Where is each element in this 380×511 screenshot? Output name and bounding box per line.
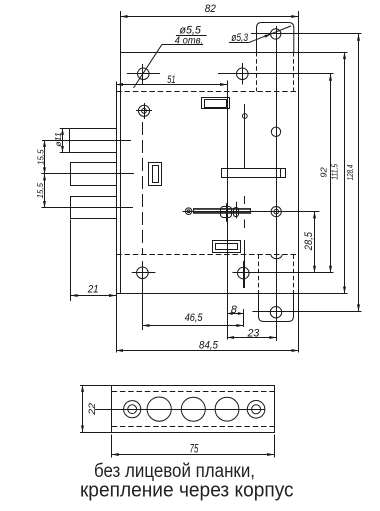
dimension 84.5 line [116, 350, 299, 352]
spindle left pivot dot [187, 210, 190, 213]
screw boss upper-left cross lines [136, 110, 152, 112]
dimension 21 extension line [70, 220, 72, 302]
label dia5.3 leader with arrow [249, 26, 291, 43]
svg-text:21: 21 [87, 284, 99, 296]
lock body right edge with dim extensions [298, 11, 300, 353]
svg-text:51: 51 [167, 74, 175, 86]
dimension 8 line [227, 313, 243, 315]
dimension 22 line [82, 385, 84, 432]
lower right hole vertical line [243, 261, 245, 288]
spindle shaft upper double line [194, 208, 251, 210]
spindle left pivot ring [185, 208, 192, 215]
svg-text:128,4: 128,4 [345, 164, 355, 180]
top tab hole horizontal center line [251, 33, 362, 35]
svg-text:22: 22 [87, 402, 98, 416]
spindle shaft right end cap [250, 208, 252, 214]
svg-text:8: 8 [231, 304, 238, 316]
dimension 75 extension right [274, 435, 276, 458]
deadbolt pin 3 bottom edge [70, 218, 116, 220]
deadbolt pin 1 center line [42, 140, 131, 142]
deadbolt pin 2 top edge [70, 162, 116, 164]
hidden line lower mechanism [116, 254, 298, 256]
upper holes center line left segment [127, 73, 160, 75]
face view right screw hole outer [247, 401, 265, 419]
svg-text:15,5: 15,5 [36, 183, 45, 199]
dimension 23 line [227, 337, 276, 339]
face view big hole 1 [147, 397, 171, 421]
face view big hole 2 [181, 397, 205, 421]
upper right hole vertical center line [242, 63, 244, 85]
cam lobe large tick [226, 203, 228, 222]
top slot inner [205, 100, 227, 108]
lower holes center line right segment to dims [232, 272, 333, 274]
svg-text:75: 75 [190, 444, 199, 456]
dimension 128.4 line [358, 34, 360, 312]
svg-text:84,5: 84,5 [199, 340, 219, 352]
deadbolt pin 2 bottom edge [70, 185, 116, 187]
face view plate outline [112, 386, 275, 433]
dimension 22 extension bottom [80, 432, 112, 434]
dimension dia11 extension top [60, 128, 70, 130]
lock body top edge [121, 52, 348, 54]
face view hidden line bottom [112, 426, 275, 428]
stop bar plate [222, 169, 286, 178]
deadbolt pin 1 bottom edge [70, 152, 116, 154]
dimension 22 extension top [80, 385, 112, 387]
dimension 92 line [330, 74, 332, 273]
top mounting tab outline [257, 23, 294, 53]
hidden line upper mechanism [116, 91, 298, 93]
bottom tab hole horizontal center line [252, 311, 361, 313]
spindle horizontal axis [183, 211, 320, 213]
label 4otv underline2 [162, 44, 204, 46]
dimension dia11 line [62, 129, 64, 152]
face view horizontal center line [95, 409, 266, 411]
face view big hole 3 [215, 397, 239, 421]
svg-text:15,5: 15,5 [36, 149, 45, 165]
hidden notch arc under lower hidden line [271, 255, 282, 259]
face view hidden line top [112, 391, 275, 393]
upper-right mounting hole dia5.5 [237, 68, 249, 80]
face view right screw hole inner [252, 405, 261, 414]
upper-left mounting hole dia5.5 [138, 68, 150, 80]
dimension 21 line [71, 295, 116, 297]
dimension 51 line [116, 84, 227, 86]
dimension 8 extension [243, 309, 245, 327]
lower holes center line left segment [132, 272, 156, 274]
face view left screw hole outer [124, 401, 141, 418]
top tab hidden left edge [256, 52, 258, 91]
label dia5.5 underline1 [176, 35, 207, 37]
left slot outer [149, 163, 162, 186]
dimension 82 line with arrows [121, 16, 299, 18]
left slot inner [153, 166, 159, 183]
dimension 28.5 line [314, 211, 316, 272]
bottom slot inner [216, 244, 238, 250]
lock body left edge with dim-82 extension [120, 11, 122, 294]
dimension 75 extension left [111, 435, 113, 458]
bottom tab hole dia 5.3 [270, 307, 281, 318]
deadbolt pin 3 left edge [70, 197, 72, 219]
deadbolt pin 3 center line [42, 207, 134, 209]
bottom slot outer [213, 241, 241, 253]
svg-text:28,5: 28,5 [303, 231, 315, 251]
lower-right mounting hole dia5.5 [238, 267, 250, 279]
top tab hole dia 5.3 [271, 29, 281, 39]
tab holes vertical center line [276, 26, 278, 341]
stop bar divider [280, 168, 282, 178]
label dia5.3 underline [229, 42, 249, 44]
svg-text:92: 92 [318, 167, 328, 178]
small pin circle [242, 114, 247, 119]
dimension 46.5 line [142, 325, 243, 327]
key axis vertical center line [227, 81, 229, 340]
cam column segment upper [244, 196, 246, 204]
face view left screw hole inner [128, 405, 137, 414]
deadbolt pin 1 left edge [69, 129, 71, 152]
dimension 75 line [112, 454, 274, 456]
bottom tab hidden left edge [258, 255, 260, 294]
svg-text:46,5: 46,5 [185, 312, 203, 324]
top tab hidden right edge [293, 52, 295, 91]
left hole column vertical center line [142, 64, 144, 85]
dimension dia11 extension bottom [60, 152, 70, 154]
top slot outer [202, 98, 230, 109]
spindle shaft lower double line [194, 212, 251, 214]
screw boss right dot [274, 209, 279, 214]
svg-text:82: 82 [205, 3, 217, 15]
cam lobe small tick [236, 202, 238, 219]
cam lobe large [221, 207, 232, 218]
deadbolt pin 2 center line [42, 173, 135, 175]
cam lobe small [234, 208, 239, 217]
lower-left mounting hole dia5.5 [137, 267, 149, 279]
screw boss right ring [271, 207, 281, 217]
pin circle column line [244, 104, 246, 168]
bottom tab hidden right edge [293, 255, 295, 294]
deadbolt pin 2 left edge [70, 163, 72, 186]
dimension 15.5 upper line [44, 140, 46, 174]
deadbolt pin 3 top edge [70, 196, 116, 198]
dimension 15.5 lower line [44, 174, 46, 208]
lock body bottom edge [116, 293, 348, 295]
label dia5.5 leader line [134, 45, 162, 88]
screw boss upper-left ring [138, 105, 149, 116]
svg-text:23: 23 [247, 328, 261, 340]
upper holes center line right segment to dim 92 [218, 73, 334, 75]
dimension 111.5 line [344, 52, 346, 294]
lock case front face edge [116, 82, 118, 353]
svg-text:ø11: ø11 [54, 132, 63, 147]
svg-text:крепление через корпус: крепление через корпус [80, 478, 294, 501]
guide circle on tab column [271, 127, 280, 136]
screw boss upper-left center dot [142, 108, 147, 113]
svg-text:111,5: 111,5 [330, 164, 340, 180]
bottom mounting tab outline [259, 294, 294, 322]
spindle shaft left end cap [193, 208, 195, 214]
cam column segment lower [244, 240, 246, 288]
deadbolt pin 1 top edge [70, 128, 116, 130]
